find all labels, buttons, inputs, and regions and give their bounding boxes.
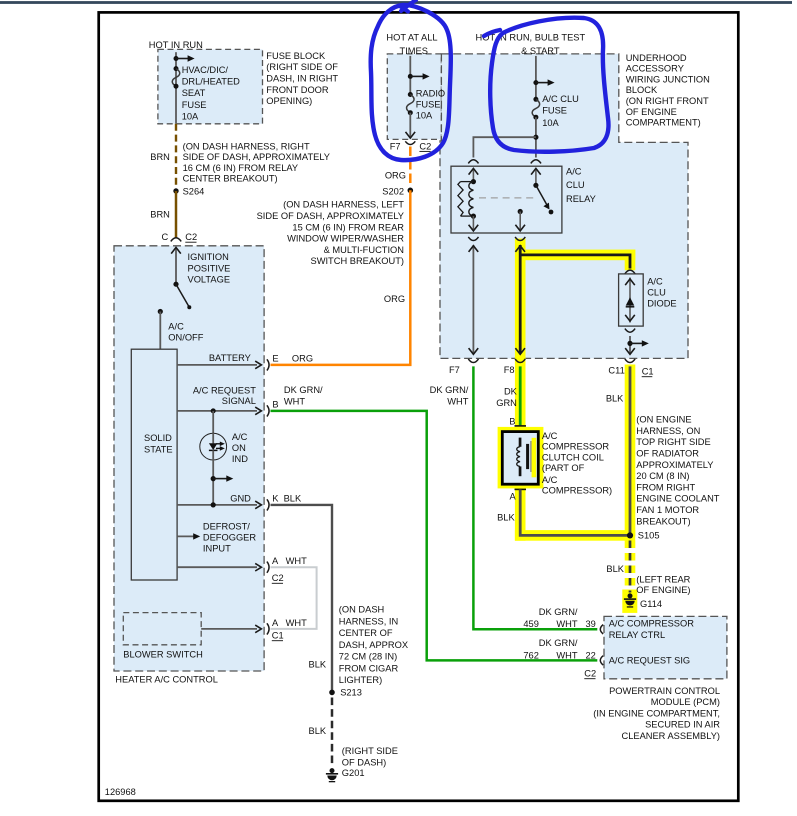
wire feed into A/C CLU fuse: [535, 56, 537, 99]
scribble around HOT IN RUN BULB TEST & START: [490, 18, 608, 152]
input DEFROST/DEFOGGER: [177, 535, 195, 537]
svg-text:HARNESS, IN: HARNESS, IN: [339, 616, 398, 626]
svg-text:DIODE: DIODE: [647, 298, 676, 308]
svg-text:HVAC/DIC/: HVAC/DIC/: [182, 65, 229, 75]
svg-text:16 CM (6 IN) FROM RELAY: 16 CM (6 IN) FROM RELAY: [183, 163, 299, 173]
relay output contact: [518, 209, 523, 214]
svg-text:& START: & START: [521, 46, 560, 56]
svg-text:(ON ENGINE: (ON ENGINE: [636, 415, 691, 425]
svg-text:APPROXIMATELY: APPROXIMATELY: [636, 460, 713, 470]
svg-text:72 CM (28 IN): 72 CM (28 IN): [339, 652, 397, 662]
svg-text:INPUT: INPUT: [203, 544, 231, 554]
svg-text:(LEFT REAR: (LEFT REAR: [636, 574, 690, 584]
svg-text:C2: C2: [272, 573, 284, 583]
relay switch blade: [533, 183, 538, 188]
svg-text:A/C CLU: A/C CLU: [542, 94, 579, 104]
svg-text:A/C: A/C: [168, 321, 184, 331]
svg-text:RELAY: RELAY: [566, 194, 596, 204]
svg-text:10A: 10A: [182, 112, 199, 122]
svg-text:A/C: A/C: [542, 475, 558, 485]
svg-text:FUSE BLOCK: FUSE BLOCK: [266, 51, 326, 61]
svg-text:10A: 10A: [542, 118, 559, 128]
svg-text:S105: S105: [638, 531, 660, 541]
relay coil pin arrow down: [472, 216, 474, 229]
svg-text:HEATER A/C CONTROL: HEATER A/C CONTROL: [115, 675, 218, 685]
harness note cigar lighter: [339, 605, 408, 686]
svg-text:A/C: A/C: [542, 431, 558, 441]
svg-text:POWERTRAIN CONTROL: POWERTRAIN CONTROL: [609, 686, 720, 696]
fuse F7: RADIO FUSE 10A: [408, 92, 413, 97]
connector F8 at junction block bottom: [515, 359, 525, 363]
wire BLK from A to S105 (highlighted): [520, 489, 630, 535]
svg-text:F8: F8: [504, 365, 515, 375]
svg-text:RADIO: RADIO: [416, 89, 445, 99]
wire BLK from pin K down to S213: [271, 505, 333, 693]
svg-text:K: K: [272, 494, 279, 504]
relay switch pin arrow up: [535, 169, 537, 186]
yellow highlight: C11 BLK wire to S105: [625, 365, 636, 537]
pin K GND output wire: [177, 504, 257, 506]
svg-text:BLK: BLK: [309, 659, 327, 669]
harness note S105: [636, 415, 719, 527]
connector C11 C1 at junction block bottom: [625, 359, 635, 363]
svg-text:& MULTI-FUCTION: & MULTI-FUCTION: [324, 245, 404, 255]
svg-text:G201: G201: [342, 768, 365, 778]
wire BLK from C11 to S105 (highlighted): [629, 366, 632, 535]
LED A/C ON IND branch: [211, 408, 216, 413]
wire BLK dashed from S213 to G201: [331, 698, 334, 767]
svg-text:A: A: [510, 491, 517, 501]
relay coil pin arrow up: [472, 169, 474, 182]
connector F7 C2: [405, 141, 415, 144]
fuse block box (dashed, light blue): [158, 49, 263, 123]
svg-text:A/C: A/C: [232, 432, 248, 442]
svg-text:BLK: BLK: [606, 564, 624, 574]
label PCM: [593, 686, 720, 741]
connector F7 at junction block bottom: [468, 359, 478, 363]
svg-text:BRN: BRN: [150, 209, 170, 219]
label IGNITION POSITIVE VOLTAGE: [188, 252, 231, 285]
svg-text:B: B: [509, 417, 515, 427]
svg-text:FUSE: FUSE: [542, 106, 567, 116]
svg-text:C1: C1: [272, 631, 284, 641]
svg-text:FUSE: FUSE: [416, 100, 441, 110]
solid state module box U: [131, 349, 177, 580]
relay mechanical link (dashed): [479, 197, 534, 199]
fuse: A/C CLU FUSE 10A: [533, 97, 538, 102]
svg-text:WHT: WHT: [447, 397, 468, 407]
svg-text:10A: 10A: [416, 111, 433, 121]
svg-text:C1: C1: [642, 367, 654, 377]
svg-text:GRN: GRN: [496, 398, 517, 408]
svg-text:ORG: ORG: [384, 294, 405, 304]
svg-text:A/C REQUEST SIG: A/C REQUEST SIG: [609, 656, 690, 666]
wire DK GRN/WHT from F7 to PCM pin 39: [473, 366, 597, 629]
splice S213: [329, 690, 335, 696]
svg-text:WHT: WHT: [556, 619, 577, 629]
svg-text:IND: IND: [232, 454, 248, 464]
svg-text:DK GRN/: DK GRN/: [539, 607, 578, 617]
svg-text:DEFROST/: DEFROST/: [203, 521, 250, 531]
svg-text:20 CM (8 IN): 20 CM (8 IN): [636, 471, 689, 481]
clutch coil winding: [519, 438, 522, 447]
diagram border frame: [99, 12, 739, 800]
wire ORG solid from S202 down and left to pin E: [271, 190, 411, 365]
svg-text:IGNITION: IGNITION: [188, 252, 229, 262]
svg-text:COMPARTMENT): COMPARTMENT): [626, 118, 701, 128]
splice S264: [173, 188, 178, 193]
svg-text:BLK: BLK: [309, 726, 327, 736]
junction node below fuse: [533, 135, 538, 140]
svg-text:VOLTAGE: VOLTAGE: [188, 275, 231, 285]
svg-text:(ON RIGHT FRONT: (ON RIGHT FRONT: [626, 96, 709, 106]
switch SW A/C ON/OFF: [173, 282, 178, 287]
svg-text:B: B: [272, 400, 278, 410]
svg-text:DRL/HEATED: DRL/HEATED: [182, 77, 240, 87]
pin E BATTERY output wire: [177, 364, 257, 366]
svg-text:WHT: WHT: [556, 650, 577, 660]
svg-text:C: C: [162, 232, 169, 242]
PCM box (dashed, light blue): [604, 616, 727, 678]
svg-text:STATE: STATE: [144, 444, 173, 454]
svg-text:CENTER OF: CENTER OF: [339, 628, 393, 638]
svg-text:OF DASH): OF DASH): [342, 757, 386, 767]
svg-text:BRN: BRN: [150, 152, 170, 162]
ground G201: [326, 768, 338, 782]
svg-text:(IN ENGINE COMPARTMENT,: (IN ENGINE COMPARTMENT,: [593, 708, 720, 718]
svg-text:DK GRN/: DK GRN/: [539, 638, 578, 648]
svg-text:WINDOW WIPER/WASHER: WINDOW WIPER/WASHER: [287, 234, 404, 244]
resistor inside relay: [458, 182, 463, 217]
wire from fuse to junction: [535, 117, 537, 157]
wire DK GRN from F8 to clutch coil B (highlighted): [519, 366, 522, 426]
fuse block location note: [266, 51, 338, 106]
svg-text:BLOWER SWITCH: BLOWER SWITCH: [123, 650, 203, 660]
svg-text:DASH, APPROX: DASH, APPROX: [339, 640, 408, 650]
svg-text:ACCESSORY: ACCESSORY: [626, 64, 684, 74]
svg-text:SIDE OF DASH, APPROXIMATELY: SIDE OF DASH, APPROXIMATELY: [257, 211, 404, 221]
svg-text:C11: C11: [608, 366, 624, 376]
svg-text:TOP RIGHT SIDE: TOP RIGHT SIDE: [636, 437, 710, 447]
svg-text:G114: G114: [640, 599, 662, 609]
svg-text:(RIGHT SIDE OF: (RIGHT SIDE OF: [266, 62, 338, 72]
svg-text:A/C: A/C: [566, 166, 582, 176]
svg-text:CENTER BREAKOUT): CENTER BREAKOUT): [183, 174, 278, 184]
svg-text:A/C REQUEST: A/C REQUEST: [193, 385, 256, 395]
svg-text:(ON DASH: (ON DASH: [339, 605, 384, 615]
yellow highlight: clutch A wire down and right to S105: [515, 487, 526, 541]
pin A (C2) output wire: [177, 566, 257, 568]
svg-text:22: 22: [585, 650, 595, 660]
connector arc below diode: [625, 329, 635, 333]
label A/C ON/OFF: [168, 321, 203, 342]
svg-text:DEFOGGER: DEFOGGER: [203, 532, 256, 542]
LED indicator A/C ON IND: [200, 433, 227, 460]
svg-text:MODULE (PCM): MODULE (PCM): [651, 697, 720, 707]
heater A/C control box (dashed, light blue): [114, 246, 264, 671]
svg-text:UNDERHOOD: UNDERHOOD: [626, 53, 687, 63]
yellow highlight: relay output F8 wire down to compressor clutch: [498, 239, 638, 613]
wire branch to relay coil: [473, 137, 536, 157]
label clutch coil: [542, 431, 612, 496]
harness note S202: [257, 200, 405, 267]
wire feed into radio fuse: [409, 56, 411, 95]
svg-text:DK GRN/: DK GRN/: [284, 385, 323, 395]
svg-text:WHT: WHT: [284, 397, 305, 407]
svg-text:WHT: WHT: [286, 556, 307, 566]
svg-text:BATTERY: BATTERY: [209, 353, 251, 363]
blower switch output wire to pin A (C1): [201, 628, 257, 630]
ground G114: [624, 593, 636, 607]
wire: feed into HVAC fuse: [175, 52, 177, 124]
svg-text:FROM RIGHT: FROM RIGHT: [636, 482, 695, 492]
wire WHT loop from C2 to C1: [271, 567, 317, 629]
branch arrow (feed continues): [176, 58, 190, 60]
svg-text:SOLID: SOLID: [144, 433, 172, 443]
svg-text:39: 39: [585, 619, 595, 629]
svg-text:BLK: BLK: [497, 513, 515, 523]
svg-text:C2: C2: [185, 232, 197, 242]
svg-text:BLK: BLK: [606, 394, 624, 404]
value label HVAC fuse: [182, 65, 240, 122]
svg-text:COMPRESSOR: COMPRESSOR: [542, 442, 609, 452]
connector arcs below relay: [468, 237, 478, 241]
svg-text:A/C COMPRESSOR: A/C COMPRESSOR: [609, 619, 695, 629]
svg-text:ENGINE COOLANT: ENGINE COOLANT: [636, 494, 719, 504]
svg-text:CLEANER ASSEMBLY): CLEANER ASSEMBLY): [621, 731, 720, 741]
svg-text:SIGNAL: SIGNAL: [222, 396, 256, 406]
wire DK GRN/WHT from pin B to PCM pin 22: [271, 411, 598, 661]
svg-text:WHT: WHT: [286, 618, 307, 628]
svg-text:COMPRESSOR): COMPRESSOR): [542, 486, 612, 496]
relay K: A/C CLU RELAY box: [451, 166, 562, 233]
splice S105: [627, 532, 633, 538]
pin arrow into heater control (ignition feed): [175, 247, 177, 284]
top navy rule: [0, 1, 792, 4]
svg-text:A: A: [272, 556, 279, 566]
svg-text:HOT IN RUN: HOT IN RUN: [149, 40, 203, 50]
wire BRN solid to connector C2: [175, 191, 178, 238]
scribble around HOT AT ALL TIMES: [371, 5, 451, 160]
svg-text:(ON DASH HARNESS, RIGHT: (ON DASH HARNESS, RIGHT: [183, 141, 310, 151]
svg-text:SIDE OF DASH, APPROXIMATELY: SIDE OF DASH, APPROXIMATELY: [183, 152, 330, 162]
svg-text:F7: F7: [390, 142, 401, 152]
fuse F: HVAC/DIC/DRL/HEATED SEAT FUSE 10A: [174, 66, 179, 71]
svg-text:OF ENGINE: OF ENGINE: [626, 107, 677, 117]
svg-text:OPENING): OPENING): [266, 96, 312, 106]
svg-text:C2: C2: [584, 669, 596, 679]
svg-text:S213: S213: [340, 688, 362, 698]
svg-text:459: 459: [523, 619, 539, 629]
svg-text:C2: C2: [419, 141, 431, 151]
clutch coil L1 box: [502, 432, 538, 485]
svg-text:OF RADIATOR: OF RADIATOR: [636, 449, 699, 459]
pin arrow out of radio fuse box: [409, 113, 411, 138]
harness note S264: [183, 141, 330, 183]
svg-text:SECURED IN AIR: SECURED IN AIR: [645, 720, 720, 730]
connector arc PCM pin 39: [600, 625, 603, 634]
svg-text:FROM CIGAR: FROM CIGAR: [339, 663, 399, 673]
wire ORG dashed from C2 to S202: [409, 147, 412, 188]
wire BLK dashed from S105 to G114 (highlighted): [625, 541, 636, 593]
svg-text:S264: S264: [183, 187, 205, 197]
svg-text:SWITCH BREAKOUT): SWITCH BREAKOUT): [311, 256, 405, 266]
svg-text:POSITIVE: POSITIVE: [188, 263, 231, 273]
yellow highlight: clutch coil block: [498, 427, 544, 489]
svg-text:ORG: ORG: [292, 353, 313, 363]
svg-text:15 CM (6 IN) FROM REAR: 15 CM (6 IN) FROM REAR: [292, 222, 404, 232]
svg-text:HOT AT ALL: HOT AT ALL: [386, 33, 437, 43]
svg-text:126968: 126968: [105, 787, 136, 797]
svg-text:A/C: A/C: [647, 277, 663, 287]
svg-text:BLOCK: BLOCK: [626, 85, 658, 95]
svg-text:ON: ON: [232, 443, 246, 453]
label underhood block: [626, 53, 710, 128]
svg-text:DK: DK: [504, 387, 518, 397]
svg-text:A: A: [272, 618, 279, 628]
svg-text:CLUTCH COIL: CLUTCH COIL: [542, 452, 604, 462]
pin B A/C REQUEST SIGNAL output wire: [177, 410, 257, 412]
connector arc PCM pin 22: [600, 656, 603, 665]
svg-text:S202: S202: [382, 187, 404, 197]
wire relay output to F8 connector (highlighted): [519, 245, 522, 353]
svg-text:BREAKOUT): BREAKOUT): [636, 516, 690, 526]
svg-text:E: E: [272, 353, 278, 363]
pin A tick: [515, 488, 527, 490]
svg-text:SEAT: SEAT: [182, 88, 206, 98]
scribble tail: [401, 0, 416, 11]
svg-text:762: 762: [523, 650, 539, 660]
svg-text:(ON DASH HARNESS, LEFT: (ON DASH HARNESS, LEFT: [283, 200, 404, 210]
clutch plate bar: [526, 444, 529, 469]
junction dot on feed: [174, 56, 179, 61]
svg-text:TIMES: TIMES: [400, 46, 428, 56]
svg-text:GND: GND: [230, 494, 251, 504]
svg-text:LIGHTER): LIGHTER): [339, 675, 382, 685]
svg-text:CLU: CLU: [566, 180, 585, 190]
relay coil with resistor: [471, 179, 476, 184]
svg-text:BLK: BLK: [284, 494, 302, 504]
diode D: A/C CLU DIODE box: [619, 274, 644, 326]
svg-text:OF ENGINE): OF ENGINE): [636, 585, 690, 595]
svg-text:FRONT DOOR: FRONT DOOR: [266, 85, 329, 95]
svg-text:FAN 1 MOTOR: FAN 1 MOTOR: [636, 505, 699, 515]
svg-text:F7: F7: [449, 365, 460, 375]
wire branch to A/C CLU diode (highlighted): [520, 255, 630, 269]
wire diode to C11 connector: [629, 336, 631, 353]
connector arcs into relay: [468, 160, 478, 164]
svg-text:CLU: CLU: [647, 288, 666, 298]
underhood accessory wiring junction block box (dashed, light blue): [440, 54, 688, 359]
radio fuse box (dashed, light blue): [387, 54, 441, 139]
splice S202: [408, 188, 414, 194]
wire relay coil to F7 connector: [472, 245, 474, 353]
yellow highlight: branch to A/C CLU diode: [520, 250, 635, 261]
svg-text:HARNESS, ON: HARNESS, ON: [636, 426, 700, 436]
connector arc into diode: [625, 270, 635, 274]
yellow highlight: G114 ground symbol: [622, 590, 637, 613]
scribble swoosh: [484, 30, 500, 36]
junction below LED with continue arrow: [211, 476, 216, 481]
svg-text:FUSE: FUSE: [182, 100, 207, 110]
wire BRN dashed segment below fuse block: [175, 124, 177, 188]
svg-text:DASH, IN RIGHT: DASH, IN RIGHT: [266, 74, 338, 84]
svg-text:WIRING JUNCTION: WIRING JUNCTION: [626, 74, 710, 84]
svg-text:(RIGHT SIDE: (RIGHT SIDE: [342, 746, 398, 756]
svg-text:DK GRN/: DK GRN/: [430, 385, 469, 395]
svg-text:(PART OF: (PART OF: [542, 463, 585, 473]
svg-text:RELAY CTRL: RELAY CTRL: [609, 630, 666, 640]
svg-text:ON/OFF: ON/OFF: [168, 333, 203, 343]
blower switch box (dashed): [123, 613, 201, 645]
svg-text:ORG: ORG: [385, 171, 406, 181]
